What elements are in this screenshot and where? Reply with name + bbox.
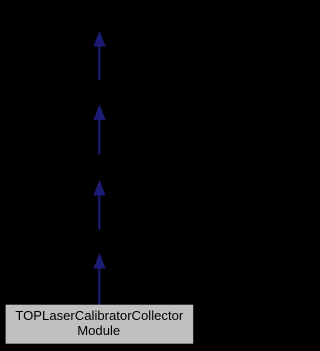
arrow edge 2: shaft: [98, 119, 100, 154]
arrow edge 3: head: [93, 180, 105, 230]
arrow edge 4: shaft: [98, 268, 100, 305]
arrow edge 2: head: [93, 104, 105, 154]
arrow edge 3: shaft: [98, 195, 100, 230]
arrow edge 1 (top): head: [93, 31, 105, 81]
svg-text:Module: Module: [77, 323, 120, 338]
node box TOPLaserCalibratorCollectorModule: [6, 305, 194, 344]
arrow edge 1: shaft: [98, 46, 100, 81]
svg-text:TOPLaserCalibratorCollector: TOPLaserCalibratorCollector: [15, 308, 183, 323]
arrow edge 4 (into node): head: [93, 253, 105, 305]
